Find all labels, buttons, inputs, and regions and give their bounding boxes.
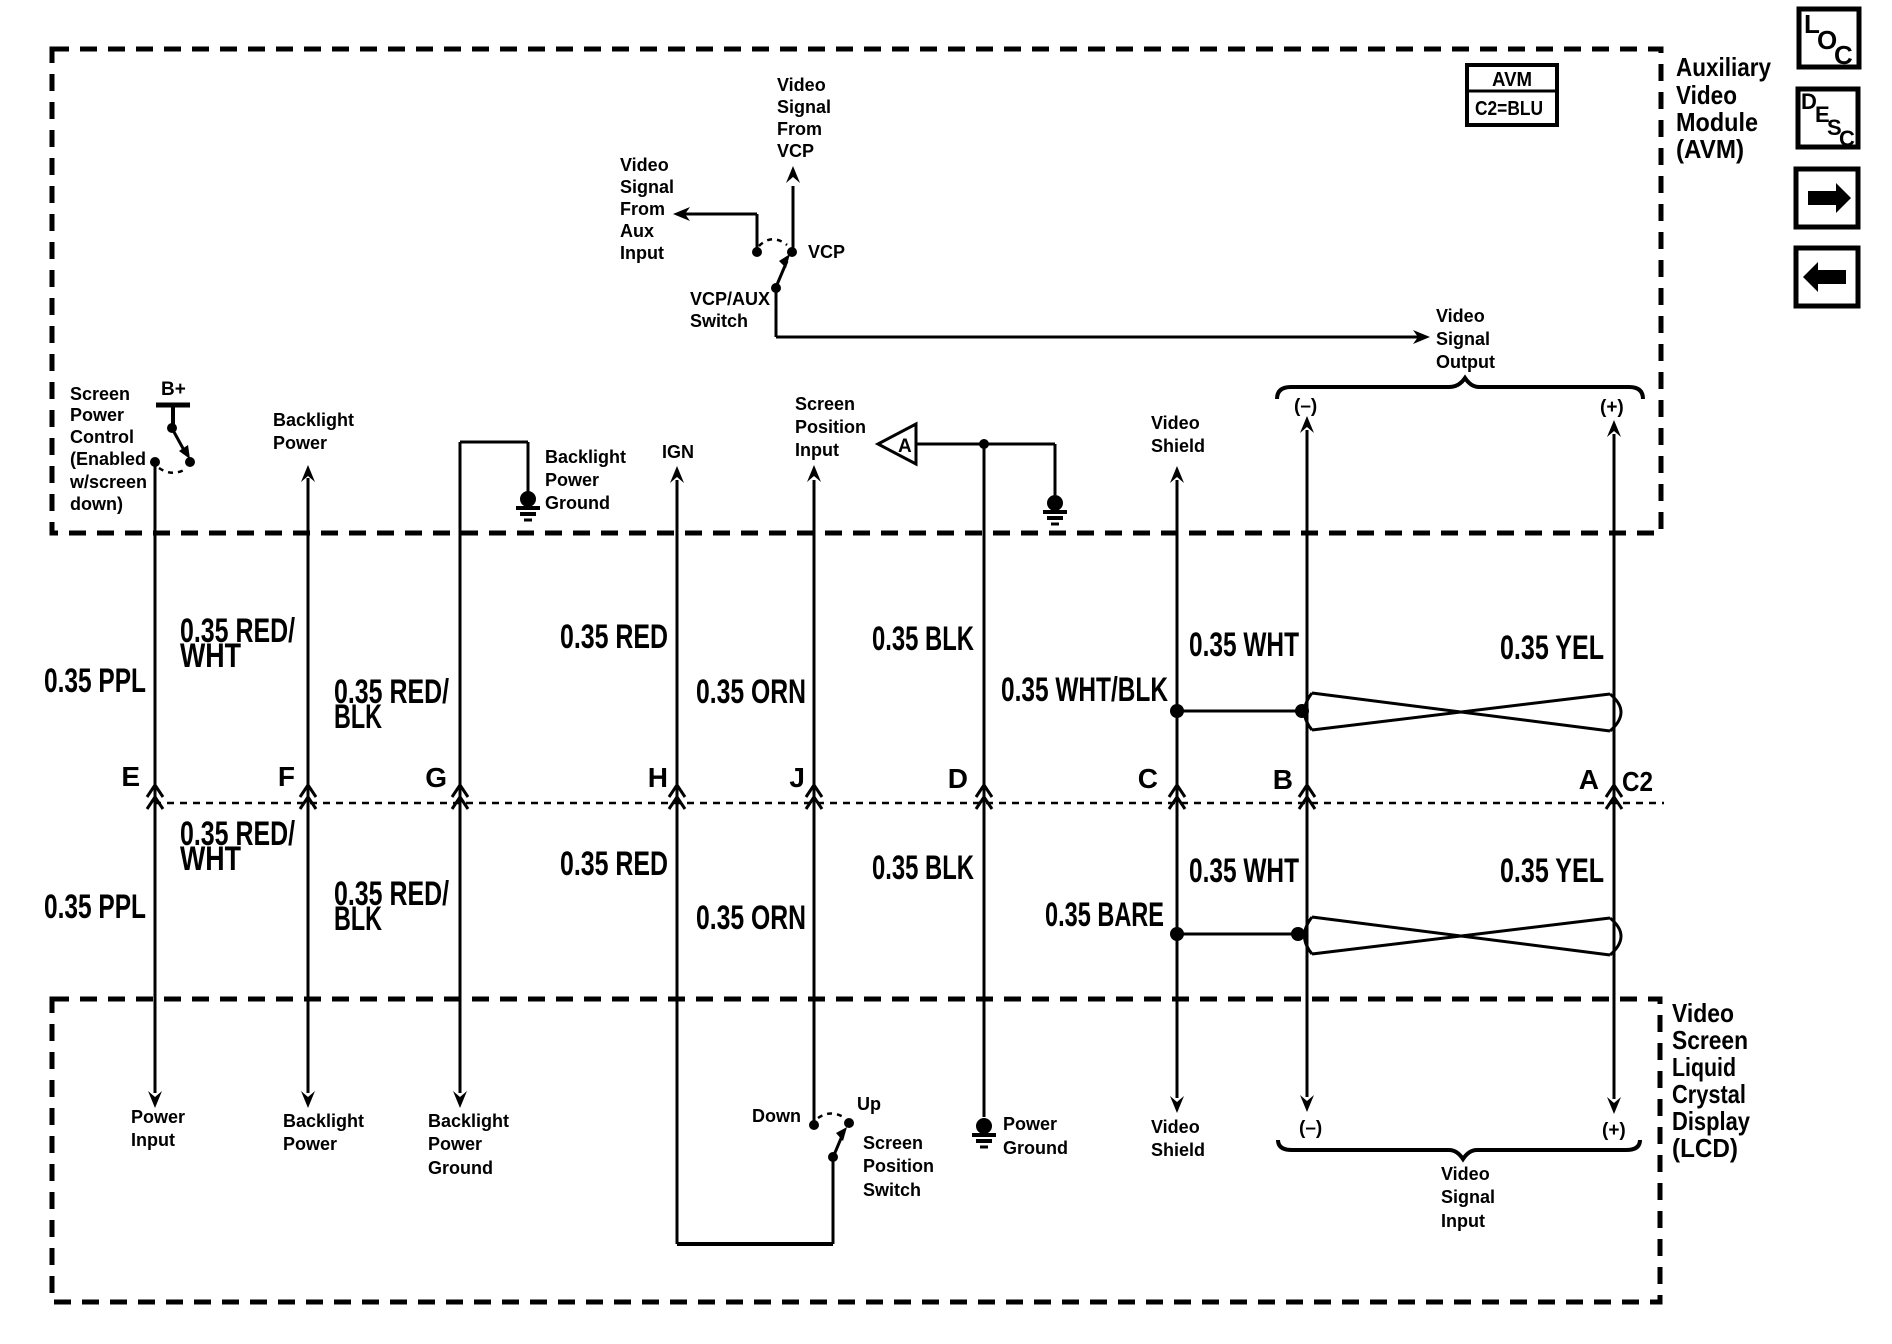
connector pin E chevrons [147, 785, 163, 809]
node VCP contact [787, 247, 797, 257]
svg-text:Power: Power [283, 1134, 337, 1154]
wire D amp output to ground branch [916, 443, 1055, 446]
svg-text:Power: Power [428, 1134, 482, 1154]
node screen position switch hinge [828, 1152, 838, 1162]
node B twisted pair junction upper [1295, 704, 1309, 718]
svg-text:A: A [898, 436, 912, 457]
B+ terminal bar [156, 403, 190, 408]
svg-text:E: E [121, 761, 140, 792]
svg-text:B+: B+ [161, 379, 186, 400]
arrowhead wire J up (Screen Position Input) [807, 465, 821, 482]
svg-text:0.35 BARE: 0.35 BARE [1045, 896, 1164, 934]
connector pin D chevrons [976, 785, 992, 809]
svg-text:Control: Control [70, 427, 134, 447]
svg-text:IGN: IGN [662, 442, 694, 462]
svg-text:Backlight: Backlight [283, 1111, 364, 1131]
node screen power lever end [185, 457, 195, 467]
wire video signal from aux input with left arrow [678, 213, 757, 216]
svg-text:WHT: WHT [180, 840, 241, 878]
svg-text:Video: Video [620, 155, 669, 175]
svg-text:Switch: Switch [863, 1180, 921, 1200]
arrowhead wire G down [453, 1091, 467, 1108]
node B twisted pair junction lower [1291, 927, 1305, 941]
ground power ground LCD [976, 1118, 992, 1134]
wire F 0.35 RED/WHT vertical [307, 478, 310, 1093]
svg-text:From: From [620, 199, 665, 219]
arrowhead wire F down [301, 1091, 315, 1108]
svg-text:F: F [278, 761, 295, 792]
svg-text:0.35 WHT/BLK: 0.35 WHT/BLK [1001, 671, 1168, 709]
svg-text:Crystal: Crystal [1672, 1079, 1746, 1109]
wire H 0.35 RED vertical [676, 480, 679, 1244]
node C shield junction lower [1170, 927, 1184, 941]
svg-text:D: D [948, 763, 968, 794]
svg-text:0.35 YEL: 0.35 YEL [1500, 852, 1604, 890]
svg-text:Backlight: Backlight [428, 1111, 509, 1131]
connector C2 mating dashed line [154, 802, 1664, 805]
switch lever screen power with arrowhead [174, 432, 185, 452]
svg-text:0.35 RED: 0.35 RED [560, 618, 668, 656]
arrowhead wire E down (Power Input) [148, 1091, 162, 1108]
AVM connector ID box [1467, 65, 1557, 125]
svg-text:(Enabled: (Enabled [70, 449, 146, 469]
op-amp buffer A triangle [878, 424, 916, 464]
svg-text:Ground: Ground [428, 1158, 493, 1178]
wire J 0.35 ORN vertical [813, 480, 816, 1122]
svg-text:Input: Input [1441, 1211, 1485, 1231]
svg-text:Aux: Aux [620, 221, 654, 241]
svg-text:Screen: Screen [863, 1133, 923, 1153]
brace video signal output [1277, 378, 1643, 399]
svg-text:VCP: VCP [808, 242, 845, 262]
node C shield junction upper [1170, 704, 1184, 718]
svg-text:0.35 WHT: 0.35 WHT [1189, 852, 1299, 890]
svg-text:Power: Power [1003, 1114, 1057, 1134]
svg-text:Video: Video [1151, 1117, 1200, 1137]
svg-text:BLK: BLK [334, 698, 382, 736]
svg-text:Video: Video [1441, 1164, 1490, 1184]
svg-text:Display: Display [1672, 1106, 1750, 1136]
arrowhead wire C down [1170, 1096, 1184, 1113]
wire video signal from VCP with up arrow [792, 186, 795, 252]
forward arrow icon box [1796, 169, 1858, 227]
svg-text:WHT: WHT [180, 637, 241, 675]
wire G 0.35 RED/BLK vertical [459, 442, 462, 1093]
svg-text:C2=BLU: C2=BLU [1475, 98, 1543, 120]
svg-text:Power: Power [545, 470, 599, 490]
svg-text:VCP: VCP [777, 141, 814, 161]
back arrow icon box [1796, 248, 1858, 306]
svg-text:0.35 YEL: 0.35 YEL [1500, 629, 1604, 667]
node D junction [979, 439, 989, 449]
svg-text:Screen: Screen [795, 394, 855, 414]
svg-text:Signal: Signal [1441, 1187, 1495, 1207]
svg-text:J: J [789, 762, 805, 793]
ground AVM internal [1047, 495, 1063, 511]
node B+ contact [167, 423, 177, 433]
svg-text:Auxiliary: Auxiliary [1676, 52, 1771, 82]
svg-text:BLK: BLK [334, 900, 382, 938]
wire G to backlight power ground [460, 441, 528, 444]
AVM module dashed outline box [52, 49, 1661, 533]
connector pin J chevrons [806, 785, 822, 809]
svg-text:A: A [1579, 764, 1599, 795]
svg-text:Video: Video [1672, 998, 1734, 1028]
switch travel dashed arc screen power [159, 468, 186, 473]
svg-text:Video: Video [777, 75, 826, 95]
connector pin G chevrons [452, 785, 468, 809]
svg-text:Module: Module [1676, 107, 1758, 137]
svg-text:Position: Position [795, 417, 866, 437]
wire shield tie lower [1177, 933, 1300, 936]
DESC icon box [1798, 89, 1858, 147]
svg-text:C: C [1138, 763, 1158, 794]
svg-text:0.35 PPL: 0.35 PPL [44, 888, 146, 926]
connector pin H chevrons [669, 785, 685, 809]
forward arrow icon glyph [1808, 183, 1851, 213]
node aux input contact [752, 247, 762, 257]
wire VCP/AUX switch to video signal output [775, 288, 778, 337]
svg-text:Ground: Ground [545, 493, 610, 513]
svg-text:Signal: Signal [620, 177, 674, 197]
switch travel dashed arc screen position [818, 1114, 845, 1119]
LCD module dashed outline box [52, 999, 1660, 1302]
svg-text:0.35 PPL: 0.35 PPL [44, 662, 146, 700]
svg-text:Input: Input [795, 440, 839, 460]
arrowhead wire H up (IGN) [670, 466, 684, 483]
svg-text:(LCD): (LCD) [1672, 1133, 1738, 1163]
svg-text:0.35 BLK: 0.35 BLK [872, 620, 974, 658]
svg-text:Liquid: Liquid [1672, 1052, 1736, 1082]
switch lever VCP/AUX with arrowhead [776, 261, 787, 287]
wire B vertical [1306, 430, 1309, 1097]
node screen position switch Down contact [809, 1120, 819, 1130]
wire E 0.35 PPL vertical [154, 464, 157, 1093]
svg-text:From: From [777, 119, 822, 139]
node screen position switch Up contact [844, 1118, 854, 1128]
svg-text:Power: Power [273, 433, 327, 453]
svg-text:Input: Input [620, 243, 664, 263]
svg-text:Down: Down [752, 1106, 801, 1126]
node VCP/AUX switch hinge [771, 283, 781, 293]
svg-text:0.35 ORN: 0.35 ORN [696, 899, 806, 937]
svg-text:Video: Video [1436, 306, 1485, 326]
wire branch to AVM power ground [1054, 444, 1057, 495]
svg-text:Up: Up [857, 1094, 881, 1114]
back arrow icon glyph [1803, 262, 1846, 292]
svg-text:(AVM): (AVM) [1676, 134, 1744, 164]
LOC icon box [1799, 9, 1859, 67]
svg-text:Power: Power [70, 405, 124, 425]
ground backlight power [520, 491, 536, 507]
wire H bottom loop to screen position switch [677, 1242, 833, 1246]
svg-text:0.35 WHT: 0.35 WHT [1189, 626, 1299, 664]
svg-text:Shield: Shield [1151, 436, 1205, 456]
arrowhead wire F up (Backlight Power) [301, 465, 315, 482]
arrowhead video signal output [1413, 330, 1430, 344]
arrowhead wire B down [1300, 1095, 1314, 1112]
svg-text:Signal: Signal [1436, 329, 1490, 349]
svg-text:Shield: Shield [1151, 1140, 1205, 1160]
svg-text:down): down) [70, 494, 123, 514]
svg-text:Screen: Screen [1672, 1025, 1748, 1055]
wire shield tie upper [1177, 710, 1303, 713]
svg-text:AVM: AVM [1492, 69, 1532, 91]
arrowhead wire A down [1607, 1097, 1621, 1114]
svg-text:Input: Input [131, 1130, 175, 1150]
svg-text:w/screen: w/screen [69, 472, 147, 492]
svg-text:0.35 RED: 0.35 RED [560, 845, 668, 883]
svg-text:VCP/AUX: VCP/AUX [690, 289, 770, 309]
connector pin C chevrons [1169, 785, 1185, 809]
svg-text:(–): (–) [1299, 1118, 1322, 1139]
svg-text:Position: Position [863, 1156, 934, 1176]
arrowhead wire B up [1300, 416, 1314, 433]
svg-text:Ground: Ground [1003, 1138, 1068, 1158]
twisted pair lower (video signal) [1305, 917, 1622, 955]
svg-text:Signal: Signal [777, 97, 831, 117]
brace video signal input [1278, 1140, 1640, 1159]
svg-text:C: C [1839, 126, 1855, 151]
svg-text:Backlight: Backlight [273, 410, 354, 430]
svg-text:Switch: Switch [690, 311, 748, 331]
svg-text:C2: C2 [1622, 766, 1653, 797]
twisted pair upper (video signal) [1305, 693, 1622, 731]
arrowhead wire A up [1607, 420, 1621, 437]
svg-text:(+): (+) [1602, 1120, 1626, 1141]
wire A vertical [1613, 434, 1616, 1099]
svg-text:C: C [1834, 40, 1853, 70]
wire D 0.35 BLK vertical [983, 444, 986, 1117]
svg-text:(–): (–) [1294, 396, 1317, 417]
svg-text:Video: Video [1676, 80, 1737, 110]
svg-text:H: H [648, 762, 668, 793]
svg-text:0.35 BLK: 0.35 BLK [872, 849, 974, 887]
svg-text:Video: Video [1151, 413, 1200, 433]
svg-text:G: G [425, 762, 447, 793]
svg-text:(+): (+) [1600, 397, 1624, 418]
node screen power control contact [150, 457, 160, 467]
svg-text:Output: Output [1436, 352, 1495, 372]
arrowhead wire C up (Video Shield) [1170, 466, 1184, 483]
connector pin F chevrons [300, 785, 316, 809]
switch lever screen position with arrowhead [834, 1136, 842, 1155]
connector pin A chevrons [1606, 785, 1622, 809]
svg-text:Backlight: Backlight [545, 447, 626, 467]
svg-text:Screen: Screen [70, 384, 130, 404]
switch travel dashed arc VCP/AUX [759, 239, 787, 246]
svg-text:0.35 ORN: 0.35 ORN [696, 673, 806, 711]
svg-text:Power: Power [131, 1107, 185, 1127]
wire C vertical [1176, 480, 1179, 1098]
connector pin B chevrons [1299, 785, 1315, 809]
svg-text:B: B [1273, 764, 1293, 795]
